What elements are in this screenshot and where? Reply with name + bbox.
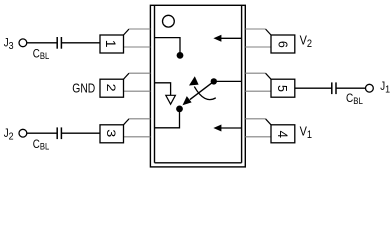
label V2 xyxy=(300,33,313,51)
capacitor C_BL (J3) xyxy=(57,37,61,49)
svg-text:3: 3 xyxy=(104,129,118,137)
svg-text:V2: V2 xyxy=(300,33,313,51)
switch pole dot xyxy=(211,78,217,84)
svg-text:V1: V1 xyxy=(300,124,313,142)
svg-text:GND: GND xyxy=(72,81,95,95)
terminal J2 xyxy=(19,129,27,137)
wire pin 2 internal xyxy=(155,83,171,96)
node dot top throw xyxy=(177,52,184,59)
wire pin 1 internal xyxy=(155,38,181,56)
svg-text:J2: J2 xyxy=(4,127,14,143)
wire J3 to C_BL xyxy=(27,42,57,44)
label V1 xyxy=(300,124,313,142)
terminal J3 xyxy=(19,39,27,47)
label C_BL (J3) xyxy=(33,47,50,61)
pin 6 lead xyxy=(245,29,294,53)
svg-text:1: 1 xyxy=(103,40,119,48)
svg-text:4: 4 xyxy=(275,131,290,139)
label J1 xyxy=(380,80,390,96)
wire J2 to C_BL xyxy=(27,132,57,134)
wire pin 4 internal arrow xyxy=(221,127,242,129)
terminal J1 xyxy=(366,84,374,92)
package U1 body xyxy=(150,5,245,167)
pin 3 lead xyxy=(100,119,150,143)
svg-text:CBL: CBL xyxy=(346,92,363,106)
wire C_BL to J1 xyxy=(336,87,366,89)
wire pin 3 internal xyxy=(155,109,180,128)
svg-text:CBL: CBL xyxy=(33,138,50,152)
label C_BL (J2) xyxy=(33,138,50,152)
node dot bottom throw xyxy=(176,106,183,113)
svg-text:J1: J1 xyxy=(380,80,390,96)
svg-text:2: 2 xyxy=(104,84,118,92)
label J3 xyxy=(4,37,14,53)
pin 1 lead xyxy=(100,29,150,53)
pin 2 lead xyxy=(100,73,150,97)
label GND xyxy=(72,81,95,95)
open arrow to ground stub xyxy=(166,95,176,104)
switch motion arc arrow xyxy=(194,87,216,100)
pin 4 lead xyxy=(245,119,294,143)
svg-text:CBL: CBL xyxy=(33,47,50,61)
pin 1 indicator circle xyxy=(163,15,175,27)
wire pin 5 internal xyxy=(214,80,242,82)
label J2 xyxy=(4,127,14,143)
wire C_BL to pin 3 xyxy=(61,132,100,134)
svg-text:6: 6 xyxy=(275,41,289,48)
wire pin 5 to C_BL xyxy=(295,87,332,89)
switch blade arrow xyxy=(190,81,214,99)
capacitor C_BL (J2) xyxy=(57,127,61,139)
svg-text:5: 5 xyxy=(275,85,289,92)
wire C_BL to pin 1 xyxy=(61,42,100,44)
wire pin 6 internal arrow xyxy=(221,37,242,39)
label C_BL (J1) xyxy=(346,92,363,106)
pin 5 lead xyxy=(245,73,294,97)
capacitor C_BL (J1) xyxy=(332,82,336,94)
svg-text:J3: J3 xyxy=(4,37,14,53)
